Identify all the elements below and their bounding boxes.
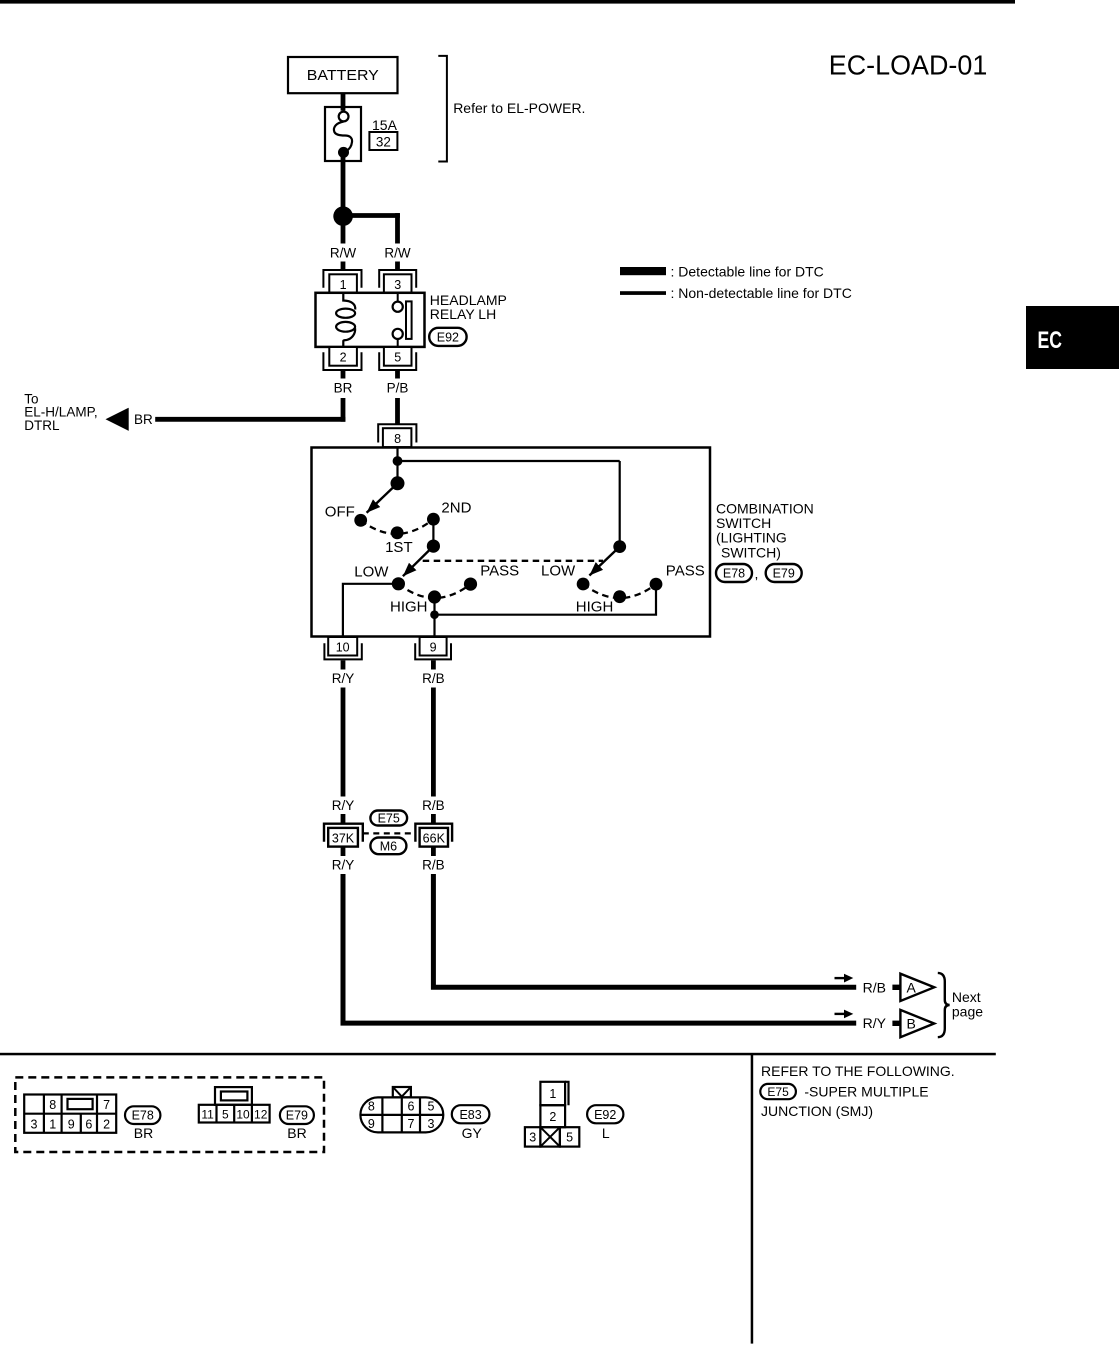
svg-text:R/B: R/B [422,671,445,686]
svg-text:A: A [907,980,917,996]
svg-text:2: 2 [549,1110,556,1124]
svg-text:E79: E79 [286,1109,308,1123]
svg-text:HIGH: HIGH [576,598,614,615]
svg-text:,: , [755,566,759,582]
svg-text:8: 8 [368,1100,375,1114]
svg-text:E75: E75 [378,812,400,826]
svg-text:66K: 66K [423,831,446,845]
svg-text:3: 3 [394,278,401,292]
svg-text:1: 1 [549,1087,556,1101]
svg-text:JUNCTION (SMJ): JUNCTION (SMJ) [761,1103,873,1119]
svg-text:Refer to EL-POWER.: Refer to EL-POWER. [453,100,585,116]
svg-text:1: 1 [49,1117,56,1131]
svg-text:PASS: PASS [666,563,705,580]
svg-text:7: 7 [103,1098,110,1112]
svg-text:BR: BR [134,1125,153,1141]
svg-text:R/Y: R/Y [332,671,355,686]
svg-text:BR: BR [287,1125,306,1141]
svg-text:R/W: R/W [330,245,357,260]
svg-text:11: 11 [201,1107,214,1121]
svg-text:BR: BR [334,381,353,396]
svg-text:LOW: LOW [354,563,389,580]
svg-text:E83: E83 [459,1108,481,1122]
svg-text:5: 5 [566,1131,573,1145]
svg-text:E75: E75 [767,1085,789,1099]
svg-text:9: 9 [368,1117,375,1131]
svg-text:EC: EC [1038,327,1063,354]
svg-text:HIGH: HIGH [390,599,428,616]
svg-text:2: 2 [103,1117,110,1131]
svg-text:R/W: R/W [384,245,411,260]
svg-text:COMBINATION: COMBINATION [716,500,814,516]
svg-text:5: 5 [428,1100,435,1114]
svg-text:2ND: 2ND [441,499,471,516]
svg-text:8: 8 [394,432,401,446]
svg-text:R/Y: R/Y [332,798,355,813]
svg-text:E78: E78 [132,1109,154,1123]
svg-text:GY: GY [462,1125,483,1141]
svg-text:2: 2 [340,351,347,365]
svg-text:PASS: PASS [480,562,519,579]
svg-text:E92: E92 [594,1108,616,1122]
svg-text:6: 6 [85,1117,92,1131]
svg-text:REFER TO THE FOLLOWING.: REFER TO THE FOLLOWING. [761,1063,955,1079]
svg-text:5: 5 [222,1107,229,1121]
svg-text:SWITCH: SWITCH [716,515,771,531]
svg-text:SWITCH): SWITCH) [721,544,781,560]
svg-text:R/B: R/B [422,798,445,813]
svg-text:1ST: 1ST [385,539,413,556]
svg-text:BATTERY: BATTERY [307,68,379,84]
svg-text:R/Y: R/Y [332,858,355,873]
svg-text:-SUPER MULTIPLE: -SUPER MULTIPLE [804,1084,928,1100]
svg-text:5: 5 [394,351,401,365]
svg-text:OFF: OFF [325,503,355,520]
svg-text:P/B: P/B [387,381,409,396]
svg-text:7: 7 [408,1117,415,1131]
svg-text:(LIGHTING: (LIGHTING [716,530,787,546]
svg-text:page: page [952,1004,983,1020]
svg-text:E79: E79 [773,567,795,581]
svg-text:6: 6 [408,1100,415,1114]
svg-text:3: 3 [31,1117,38,1131]
svg-text:1: 1 [340,278,347,292]
svg-text:BR: BR [134,412,153,427]
svg-text:Next: Next [952,989,981,1005]
svg-text:10: 10 [236,1107,250,1121]
svg-text:3: 3 [428,1117,435,1131]
svg-text:M6: M6 [380,840,397,854]
svg-text:8: 8 [49,1098,56,1112]
svg-text:10: 10 [336,640,350,654]
svg-text:15A: 15A [372,117,398,133]
svg-text:37K: 37K [332,831,355,845]
svg-text:32: 32 [376,134,391,149]
svg-text:EC-LOAD-01: EC-LOAD-01 [829,49,988,80]
svg-text:LOW: LOW [541,563,576,580]
svg-text:E78: E78 [723,567,745,581]
svg-text:3: 3 [529,1131,536,1145]
svg-text:L: L [602,1125,610,1141]
svg-text:RELAY LH: RELAY LH [430,306,496,322]
svg-text:: Non-detectable line for DTC: : Non-detectable line for DTC [671,285,852,301]
svg-text:: Detectable line for DTC: : Detectable line for DTC [671,263,824,279]
svg-text:9: 9 [68,1117,75,1131]
svg-text:R/B: R/B [863,979,886,995]
svg-text:E92: E92 [437,330,459,344]
svg-text:B: B [907,1016,916,1032]
svg-text:12: 12 [254,1107,268,1121]
svg-text:DTRL: DTRL [24,418,60,433]
svg-text:R/B: R/B [422,858,445,873]
svg-text:R/Y: R/Y [863,1015,887,1031]
svg-text:9: 9 [430,640,437,654]
